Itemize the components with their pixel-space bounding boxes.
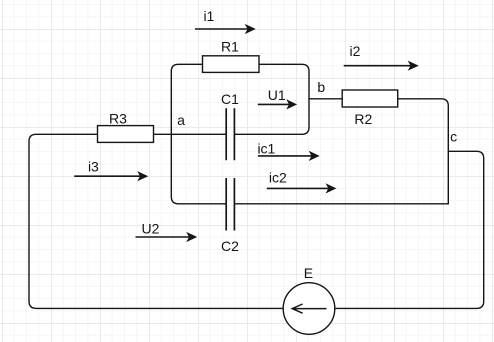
svg-text:R1: R1	[221, 38, 239, 54]
resistor R2	[342, 90, 398, 107]
arrow ic2	[267, 184, 336, 192]
svg-text:i3: i3	[88, 158, 99, 174]
arrow U1	[258, 100, 296, 108]
svg-text:b: b	[317, 79, 325, 95]
arrow i3	[74, 172, 147, 180]
wire: inner loop left (C2 left wire, left vertical x=171, top wire y=64, b vertical x=309, wire to C1 right plate)	[171, 64, 309, 204]
wire: inner loop right (C2 right wire, right vertical x=448, wire to R2 right edge)	[234, 99, 448, 204]
svg-text:ic2: ic2	[269, 169, 287, 185]
resistor R1	[203, 56, 260, 73]
wire: node b to R2 left edge	[309, 98, 342, 100]
svg-text:R3: R3	[109, 111, 127, 127]
svg-text:U2: U2	[142, 221, 160, 237]
source E arrow (open, pointing left)	[292, 304, 326, 313]
capacitor C1	[226, 108, 234, 160]
svg-text:C1: C1	[221, 91, 239, 107]
arrow i1	[195, 25, 255, 33]
svg-text:R2: R2	[354, 111, 372, 127]
arrow U2	[136, 233, 197, 241]
svg-text:i1: i1	[203, 8, 214, 24]
wire: outer loop (main horizontal y=134 through R3, left vertical x=29, bottom y=308, right vertical x=484, c branch y=151)	[29, 134, 484, 308]
svg-text:a: a	[177, 112, 185, 128]
svg-text:E: E	[304, 265, 313, 281]
svg-text:U1: U1	[268, 87, 286, 103]
svg-text:c: c	[450, 129, 457, 145]
source E circle	[283, 283, 335, 335]
svg-text:ic1: ic1	[257, 141, 275, 157]
capacitor C2	[226, 178, 234, 231]
arrow ic1	[258, 152, 319, 160]
arrow i2	[344, 62, 418, 70]
svg-text:C2: C2	[221, 238, 239, 254]
svg-text:i2: i2	[350, 43, 361, 59]
resistor R3	[98, 126, 154, 143]
